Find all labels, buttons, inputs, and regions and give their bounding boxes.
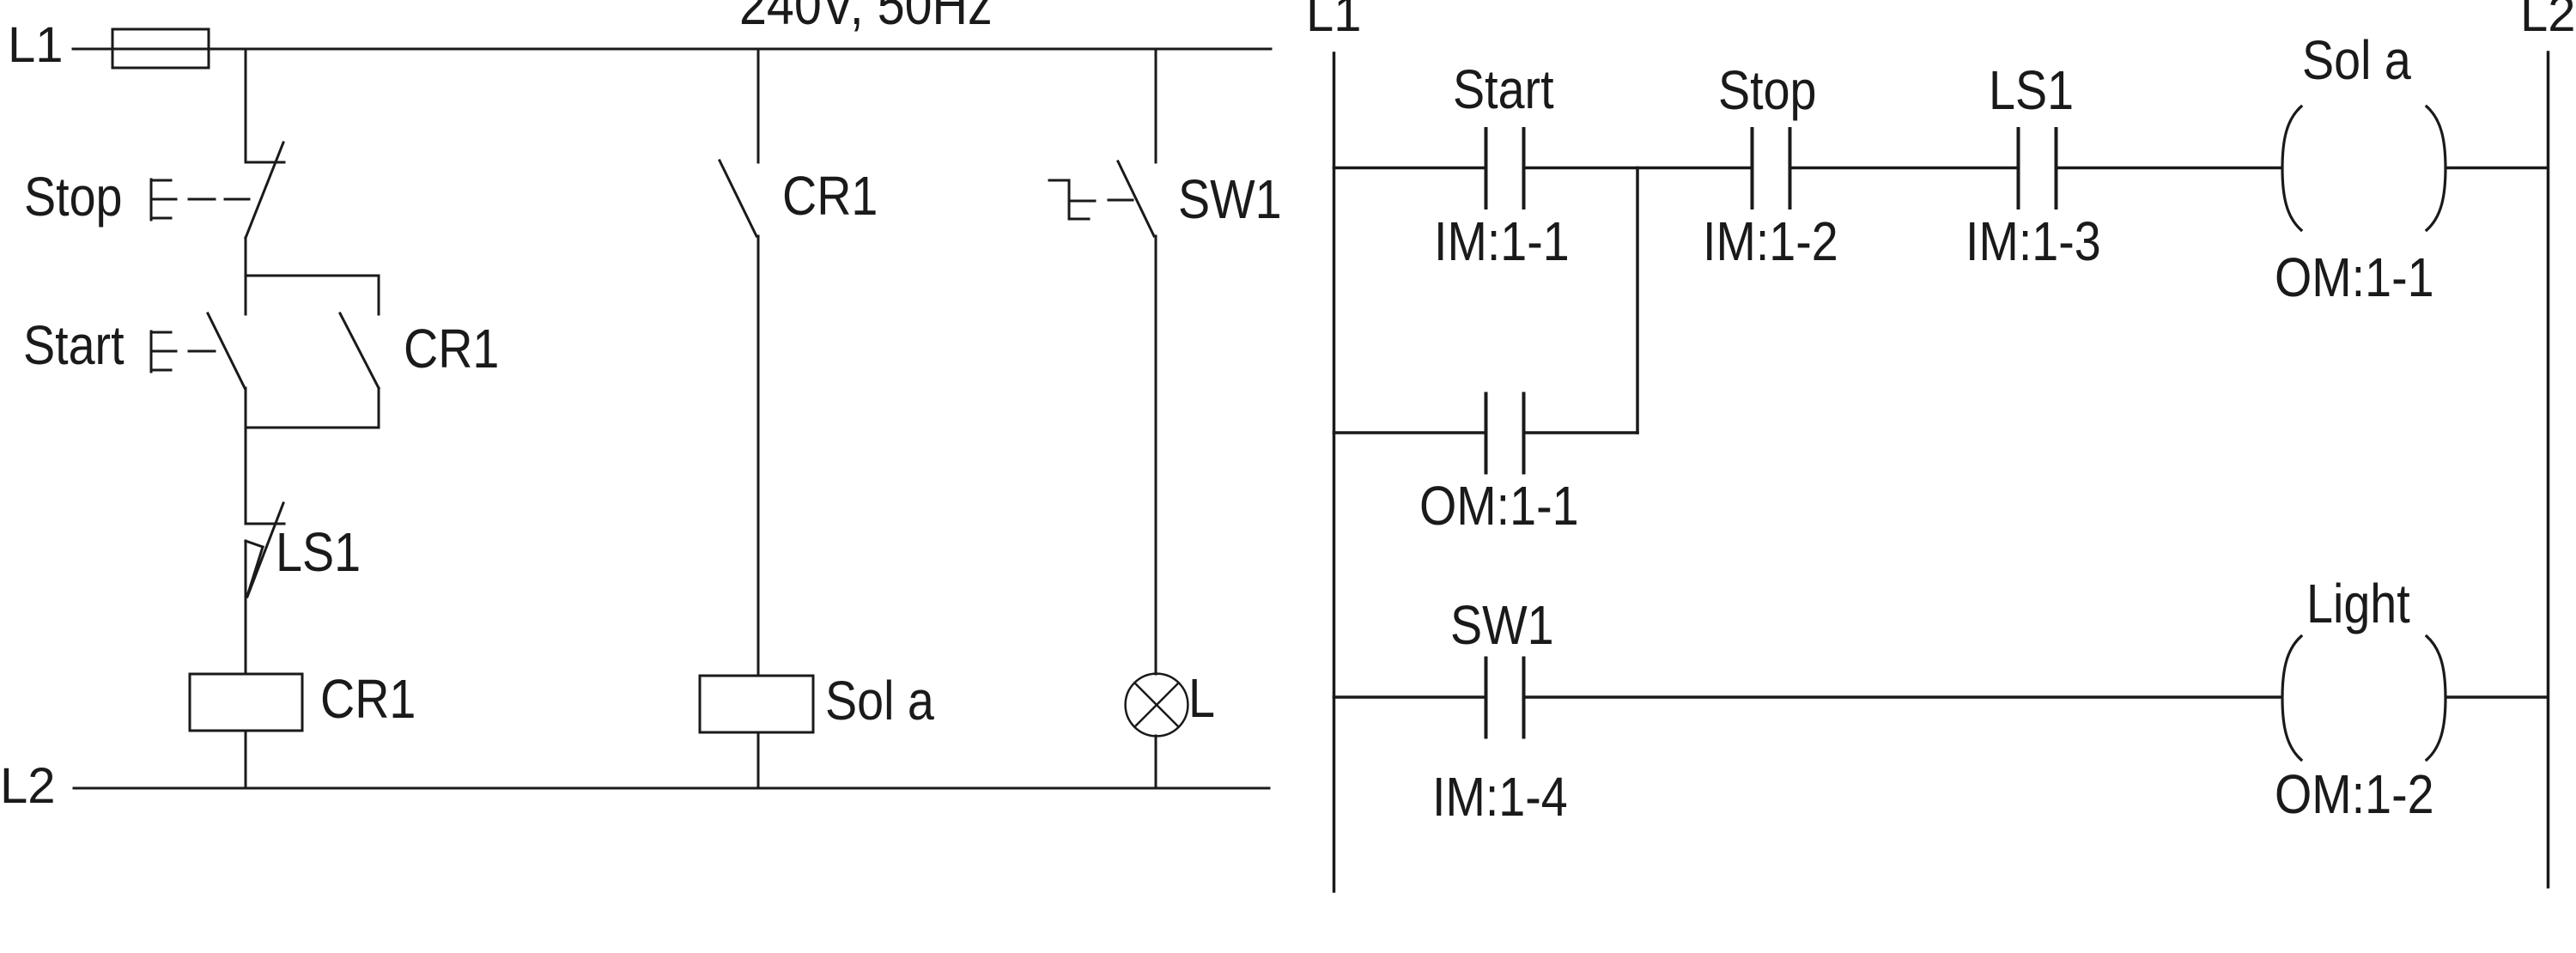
wire branch rung segment b: [1524, 431, 1638, 434]
svg-text:OM:1-1: OM:1-1: [2275, 246, 2434, 307]
svg-text:L2: L2: [0, 758, 56, 814]
svg-text:Stop: Stop: [24, 166, 123, 227]
wire PLC rung2 segment a: [1334, 695, 1486, 699]
wire CR1 contact lower stub: [378, 388, 380, 428]
limit switch LS1 NC contact: [246, 503, 284, 597]
relay contact CR1 (seal-in, NO): [340, 313, 379, 388]
label Stop: [24, 166, 123, 227]
svg-text:IM:1-2: IM:1-2: [1703, 210, 1838, 271]
contact OM:1-1 (seal-in, NO): [1486, 394, 1524, 473]
svg-text:LS1: LS1: [1989, 59, 2074, 120]
svg-text:Light: Light: [2306, 573, 2410, 634]
svg-text:L2: L2: [2520, 0, 2576, 42]
lamp L (pilot light): [1126, 674, 1188, 737]
wire rung3 vertical drop: [1155, 49, 1157, 162]
wire branch rung segment a: [1334, 431, 1486, 434]
wire PLC rung2 segment c: [2446, 695, 2547, 699]
label SW1 (PLC): [1450, 594, 1554, 655]
wire right power rail: [2547, 52, 2550, 887]
wire Stop to branch: [245, 238, 247, 276]
label Sol a (PLC): [2302, 29, 2411, 90]
label OM:1-2: [2275, 763, 2434, 824]
wire branch vertical: [1636, 168, 1639, 434]
svg-text:IM:1-1: IM:1-1: [1434, 210, 1570, 271]
wire L1 top rail: [73, 48, 1271, 51]
contact Stop IM:1-2 (NO): [1753, 129, 1790, 208]
wire coil Sol a to L2: [757, 732, 760, 788]
svg-text:OM:1-1: OM:1-1: [1419, 475, 1579, 536]
label IM:1-2: [1703, 210, 1838, 271]
output coil Light OM:1-2: [2282, 636, 2445, 760]
label CR1 (rung2 contact): [782, 165, 878, 226]
node L1 (PLC ladder label): [1306, 0, 1362, 42]
node L2 (PLC ladder label): [2520, 0, 2576, 42]
wire PLC rung1 segment a: [1334, 167, 1486, 170]
wire PLC rung2 segment b: [1524, 695, 2282, 699]
svg-text:Start: Start: [23, 314, 125, 375]
pushbutton Stop NC contact: [246, 143, 284, 238]
svg-text:SW1: SW1: [1450, 594, 1554, 655]
solenoid coil Sol a: [700, 676, 813, 732]
wire rung1 vertical drop: [245, 49, 247, 162]
svg-text:Sol a: Sol a: [825, 670, 934, 731]
wire PLC rung1 segment e: [2446, 167, 2547, 170]
switch SW1 NO contact: [1118, 161, 1154, 236]
pushbutton Start NO contact: [208, 313, 245, 388]
label OM:1-1 (contact): [1419, 475, 1579, 536]
label 240V, 50Hz: [739, 0, 993, 37]
label Stop (PLC): [1718, 59, 1817, 120]
label IM:1-3: [1965, 210, 2101, 271]
relay coil CR1: [190, 674, 302, 731]
contact LS1 IM:1-3 (NO): [2019, 129, 2057, 208]
wire rung2 vertical drop: [757, 49, 760, 162]
relay contact CR1 (rung2, NO): [720, 161, 756, 236]
label LS1: [276, 521, 361, 582]
label SW1: [1178, 168, 1282, 229]
wire PLC rung1 segment d: [2057, 167, 2282, 170]
svg-text:L1: L1: [1306, 0, 1362, 42]
svg-text:CR1: CR1: [320, 668, 416, 729]
wire CR1 contact upper stub: [378, 276, 380, 314]
label Light: [2306, 573, 2410, 634]
contact SW1 IM:1-4 (NO): [1486, 659, 1524, 738]
pushbutton operator Stop (E symbol with dashed link): [151, 179, 249, 220]
svg-text:CR1: CR1: [782, 165, 878, 226]
label OM:1-1 (coil): [2275, 246, 2434, 307]
wire lamp to L2: [1155, 736, 1157, 788]
svg-text:Start: Start: [1453, 58, 1554, 119]
svg-text:L1: L1: [8, 17, 64, 73]
wire branch to LS1: [245, 428, 247, 524]
label IM:1-1: [1434, 210, 1570, 271]
svg-text:CR1: CR1: [404, 318, 499, 379]
label IM:1-4: [1432, 766, 1568, 827]
wire PLC rung1 segment b: [1524, 167, 1753, 170]
fuse F1: [112, 29, 209, 68]
label Start (PLC): [1453, 58, 1554, 119]
wire coil CR1 to L2: [245, 731, 247, 788]
label LS1 (PLC): [1989, 59, 2074, 120]
svg-text:IM:1-3: IM:1-3: [1965, 210, 2101, 271]
pushbutton operator Start (E symbol with dashed link): [151, 331, 215, 372]
label L (lamp): [1188, 667, 1215, 728]
wire Start upper stub: [245, 276, 247, 314]
wire Start lower stub: [245, 388, 247, 428]
svg-text:IM:1-4: IM:1-4: [1432, 766, 1568, 827]
output coil Sol a OM:1-1: [2282, 106, 2445, 230]
wire CR1 contact to coil Sol a: [757, 236, 760, 676]
node L2 (left diagram label): [0, 758, 56, 814]
contact Start IM:1-1 (NO): [1486, 129, 1524, 208]
svg-text:Sol a: Sol a: [2302, 29, 2411, 90]
wire parallel branch top: [246, 275, 379, 277]
label Start: [23, 314, 125, 375]
label CR1 (seal-in contact): [404, 318, 499, 379]
svg-text:L: L: [1188, 667, 1215, 728]
wire SW1 to lamp: [1155, 236, 1157, 674]
wire PLC rung1 segment c: [1790, 167, 2019, 170]
node L1 (left diagram label): [8, 17, 64, 73]
svg-text:OM:1-2: OM:1-2: [2275, 763, 2434, 824]
svg-text:240V, 50Hz: 240V, 50Hz: [739, 0, 993, 37]
label Sol a: [825, 670, 934, 731]
svg-text:SW1: SW1: [1178, 168, 1282, 229]
wire LS1 to coil CR1: [245, 541, 247, 674]
svg-text:LS1: LS1: [276, 521, 361, 582]
wire left power rail: [1333, 53, 1336, 891]
svg-text:Stop: Stop: [1718, 59, 1817, 120]
wire L2 bottom rail: [74, 787, 1269, 790]
wire parallel branch bottom: [246, 427, 379, 429]
label CR1 (coil): [320, 668, 416, 729]
switch operator SW1 (toggle symbol with dashed link): [1049, 180, 1133, 219]
